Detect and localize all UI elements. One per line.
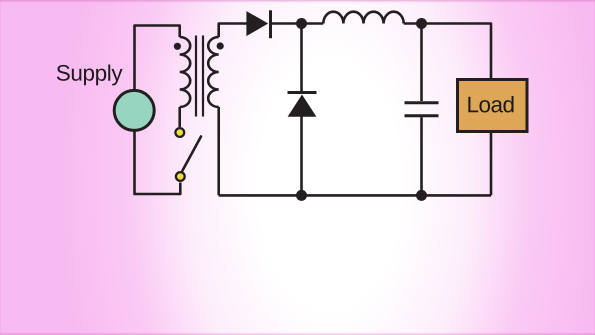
- freewheeling diode D2: [288, 93, 317, 117]
- switch S1 blade: [183, 137, 202, 171]
- wire inductor to node B: [404, 22, 422, 25]
- polarity dot primary: [174, 43, 181, 50]
- wire node A down to diode D2: [300, 24, 303, 92]
- svg-text:Supply: Supply: [56, 61, 124, 86]
- wire secondary top to diode: [219, 24, 247, 38]
- transformer T1 secondary winding: [208, 37, 219, 107]
- wire primary bottom to switch: [178, 107, 181, 127]
- wire capacitor to bottom rail: [420, 117, 423, 195]
- supply source circle: [114, 90, 154, 130]
- capacitor C1: [405, 103, 439, 116]
- inductor L1: [323, 12, 403, 24]
- transformer T1 primary winding: [180, 37, 191, 107]
- wire diode to node A: [272, 22, 302, 25]
- wire node A to inductor: [302, 22, 324, 25]
- wire supply loop bottom: [135, 131, 181, 194]
- wire node B down to capacitor: [420, 24, 423, 102]
- load box: [458, 80, 528, 132]
- node C junction: [296, 190, 307, 201]
- node A junction: [296, 18, 307, 29]
- diode D1 series rectifier: [246, 10, 270, 38]
- wire node B to load top: [422, 24, 492, 80]
- switch S1 bottom contact: [176, 172, 185, 181]
- node B junction: [416, 18, 427, 29]
- node D junction: [416, 190, 427, 201]
- wire diode D2 to bottom rail: [300, 117, 303, 196]
- wire supply loop top: [135, 26, 180, 91]
- wire bottom rail: [219, 194, 491, 197]
- switch S1 top contact: [175, 128, 184, 137]
- wire load bottom: [490, 132, 493, 196]
- polarity dot secondary: [217, 42, 224, 49]
- svg-text:Load: Load: [466, 92, 514, 117]
- transformer core: [196, 36, 203, 117]
- wire secondary bottom: [217, 107, 220, 195]
